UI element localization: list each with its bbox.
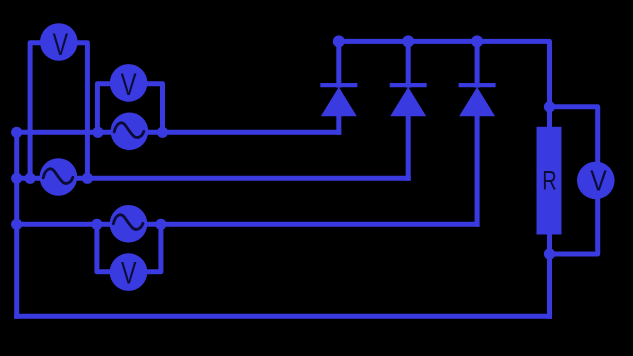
wire: diode D1 anode drop [336,116,341,132]
wire: voltmeter V4 loop right leg [147,224,161,271]
node: D3 cathode on top bus [471,35,483,47]
ac source S1 (phase A) [111,113,149,151]
diode D2 [390,85,427,116]
svg-text:V: V [590,165,607,197]
wire: phase C line [17,222,477,227]
node: R bottom / V5 junction [544,248,555,259]
node: phase A / neutral bus junction [11,127,22,138]
svg-text:R: R [542,166,557,196]
ac source S3 (phase C) [110,205,148,243]
svg-text:V: V [53,26,69,62]
node: V1 right terminal on phase B [82,173,93,184]
node: V2 right terminal on phase A [157,127,168,138]
svg-text:V: V [121,66,137,102]
wire: voltmeter V1 loop left leg [30,43,42,179]
wire: bottom bus [17,314,550,319]
ac source S2 (phase B) [40,158,78,196]
wire: phase B line [17,176,409,181]
wire: phase A line [17,130,339,135]
wire: resistor bottom lead [547,234,552,316]
wire: voltmeter V2 loop left leg [97,84,112,133]
wire: voltmeter V1 loop right leg [76,43,87,179]
wire: left neutral bus [14,132,19,316]
diode D1 [320,85,357,116]
node: D1 cathode on top bus [333,35,345,47]
node: phase B / neutral bus junction [11,173,22,184]
node: V1 left terminal on phase B [25,173,36,184]
wire: voltmeter V5 loop [550,107,598,254]
voltmeter V4 [110,253,148,291]
wire: voltmeter V4 loop left leg [97,224,111,271]
voltmeter V1 [40,23,78,62]
svg-text:V: V [121,255,137,291]
node: V4 left terminal on phase C [91,219,102,230]
wire: diode D3 anode drop [475,116,480,224]
node: phase C / neutral bus junction [11,219,22,230]
node: D2 cathode on top bus [402,35,414,47]
node: R top / V5 junction [544,101,555,112]
resistor R [537,127,562,235]
wire: diode D2 cathode riser [406,41,411,85]
node: V2 left terminal on phase A [92,127,103,138]
voltmeter V2 [110,64,148,102]
diode D3 [459,85,496,116]
voltmeter V5 [577,162,615,200]
wire: diode D2 anode drop [406,116,411,178]
wire: diode D3 cathode riser [475,41,480,85]
wire: voltmeter V2 loop right leg [148,84,163,133]
wire: diode D1 cathode riser [336,41,341,85]
node: V4 right terminal on phase C [155,219,166,230]
wire: top DC bus [339,41,550,127]
